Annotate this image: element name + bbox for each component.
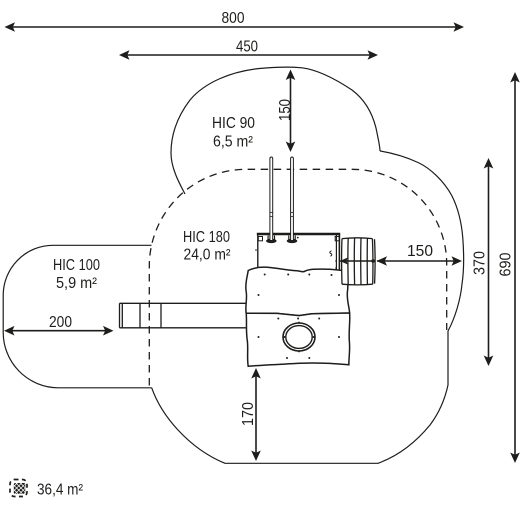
safety zone outline: top bump (HIC 90 zone) [171,67,380,194]
svg-text:HIC 90: HIC 90 [212,115,255,132]
svg-text:150: 150 [407,243,433,260]
post left (fireman pole) [266,157,277,243]
svg-text:200: 200 [49,314,72,331]
mat dots [258,274,341,360]
svg-text:36,4 m²: 36,4 m² [37,482,83,499]
dimension 150 (right horizontal, slide) [340,243,462,266]
safety zone outline: bottom bump [152,331,448,463]
dimension 200 (left horizontal) [4,314,114,336]
protective mat upper [246,267,350,315]
safety zone outline: right bump [380,151,464,331]
svg-text:170: 170 [240,402,257,426]
dimension 370 (right vertical) [471,158,493,366]
small bolt dots [335,260,337,262]
walkway (bridge) to platform [120,303,248,328]
safety zone outline: left bump (HIC 100 zone) [3,245,152,387]
dimension 800 (top) [5,10,465,32]
svg-text:HIC 180: HIC 180 [183,229,230,246]
tunnel circle in lower mat [283,322,315,353]
svg-text:HIC 100: HIC 100 [53,257,100,274]
dimension 450 (top) [119,39,378,60]
svg-text:370: 370 [471,251,488,275]
HIC 180 zone dashed boundary [149,169,446,385]
svg-text:6,5 m²: 6,5 m² [213,134,253,151]
platform (tower) [255,234,340,284]
post base clamps [268,236,295,241]
dimension 170 (bottom vertical) [240,368,261,461]
squiggle detail on platform [330,251,332,256]
total area icon (hatched square with dashed border) [6,477,31,501]
protective mat lower [246,313,350,366]
svg-text:24,0 m²: 24,0 m² [184,247,231,264]
svg-text:800: 800 [222,10,245,27]
svg-text:5,9 m²: 5,9 m² [56,275,97,292]
svg-text:690: 690 [498,252,515,276]
post right (fireman pole) [287,157,298,243]
dimension 150 (top vertical) [277,70,296,153]
platform corner notches [258,237,262,241]
dimension 690 (right vertical) [498,72,520,463]
svg-text:150: 150 [277,99,294,121]
svg-text:450: 450 [236,39,258,56]
slide (roller slide) [342,238,376,285]
